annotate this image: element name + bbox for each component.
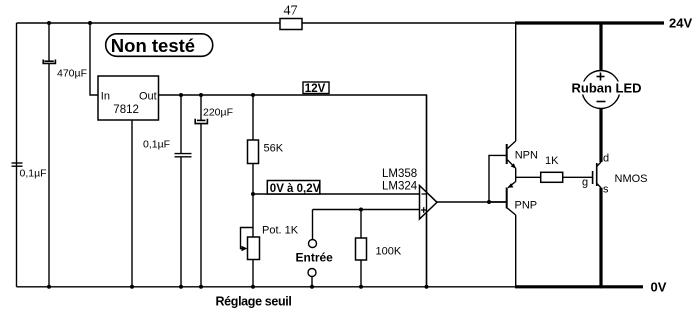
node top rail junction 470uF [47, 21, 51, 25]
svg-text:0V à 0,2V: 0V à 0,2V [270, 183, 321, 195]
node bottom rail junction 0,1uF [179, 285, 183, 289]
capacitor C4 220uF [195, 95, 207, 287]
wire op-amp output [437, 201, 507, 203]
node bottom rail junction 7812 gnd [130, 285, 134, 289]
wire 7812 ground [131, 120, 133, 287]
svg-text:56K: 56K [264, 143, 284, 155]
label 12V boxed [303, 82, 329, 95]
wire 24V thick rail [515, 21, 664, 24]
node top rail junction In [88, 21, 92, 25]
wire 0V thick rail [515, 285, 643, 288]
transistor Q2 PNP [489, 177, 516, 286]
wire NPN base bus [489, 155, 507, 202]
wire left vertical [16, 23, 18, 287]
wire emitter to 1K [516, 176, 541, 178]
resistor R 56K [248, 95, 259, 194]
node out junction 56K [251, 93, 255, 97]
resistor R 100K [356, 210, 367, 287]
svg-text:LM324: LM324 [382, 181, 418, 193]
op-amp U1 triangle [420, 186, 438, 220]
node junction 100K [359, 208, 363, 212]
wire op-amp power vertical [426, 95, 428, 287]
svg-text:NPN: NPN [515, 150, 538, 162]
node bottom rail junction entree [310, 285, 314, 289]
node bottom rail junction pot [251, 285, 255, 289]
svg-text:470µF: 470µF [57, 68, 87, 80]
wire top rail mid segment [302, 22, 516, 24]
wire bottom rail thin [17, 286, 517, 288]
wire 7812 In [90, 23, 98, 95]
svg-text:0,1µF: 0,1µF [20, 168, 47, 180]
LED plus sign [597, 73, 605, 81]
resistor R 1K [541, 172, 563, 182]
wire thick LED bottom to drain [599, 109, 602, 163]
svg-text:24V: 24V [669, 16, 692, 31]
LED minus sign [597, 101, 606, 103]
svg-text:Out: Out [139, 91, 157, 103]
svg-text:PNP: PNP [515, 200, 538, 212]
wire 12V out rail [159, 95, 427, 287]
label 0V a 0,2V boxed [267, 181, 320, 195]
node out junction 220uF [199, 93, 203, 97]
NPN emitter arrowhead [511, 163, 516, 168]
svg-text:Pot. 1K: Pot. 1K [262, 225, 299, 237]
svg-text:0,1µF: 0,1µF [143, 139, 170, 151]
svg-text:In: In [101, 91, 110, 103]
transistor Q3 NMOS [593, 162, 601, 188]
svg-text:LM358: LM358 [382, 168, 417, 180]
label Non teste rounded box [106, 34, 213, 57]
node output junction base bus [487, 200, 491, 204]
wire thick LED top [599, 23, 602, 71]
svg-text:1K: 1K [545, 155, 559, 167]
LED circle Ruban LED [582, 71, 620, 109]
label Ruban LED [570, 82, 642, 95]
wire op-amp plus input [313, 209, 420, 211]
capacitor C1 0,1uF (left) [12, 163, 23, 166]
connector Entree bottom [308, 269, 316, 287]
capacitor C3 0,1uF (mid) [175, 95, 192, 287]
regulator U 7812 [98, 76, 159, 120]
wire thick NMOS source to 0V [599, 188, 602, 288]
PNP emitter arrowhead [508, 183, 514, 188]
svg-text:7812: 7812 [113, 104, 139, 116]
svg-text:Ruban LED: Ruban LED [572, 81, 642, 96]
capacitor C2 470uF [43, 23, 55, 287]
transistor Q1 NPN [507, 23, 516, 177]
svg-text:Non testé: Non testé [111, 35, 195, 56]
svg-text:g: g [582, 177, 588, 189]
svg-text:s: s [603, 184, 609, 196]
node bottom rail junction 220uF [199, 285, 203, 289]
potentiometer Pot. 1K [241, 194, 260, 287]
svg-text:d: d [603, 153, 609, 165]
svg-text:0V: 0V [651, 280, 667, 295]
op-amp minus sign [422, 193, 427, 195]
svg-text:Réglage seuil: Réglage seuil [216, 295, 292, 309]
node bottom rail junction 470uF [47, 285, 51, 289]
op-amp plus sign [421, 207, 427, 213]
node out junction 0,1uF [179, 93, 183, 97]
resistor R 47 [280, 19, 302, 30]
svg-text:220µF: 220µF [203, 107, 233, 119]
svg-text:NMOS: NMOS [615, 173, 648, 185]
node bottom rail junction 100K [359, 285, 363, 289]
wire 1K to gate [563, 176, 593, 178]
svg-text:Entrée: Entrée [296, 251, 334, 265]
connector Entree top [309, 210, 317, 248]
wire op-amp minus input [253, 193, 420, 195]
svg-text:100K: 100K [376, 246, 402, 258]
node junction pot/56K [251, 192, 255, 196]
node bottom rail junction op-amp [425, 285, 429, 289]
pot wiper arrowhead [242, 246, 248, 252]
wire top rail left segment [17, 22, 281, 24]
svg-text:47: 47 [284, 4, 298, 19]
svg-text:12V: 12V [305, 83, 326, 95]
